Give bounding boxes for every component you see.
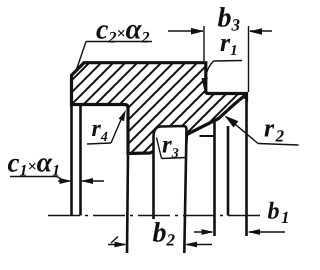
flange tooth white foreground — [154, 126, 187, 252]
section hatching of bearing ring — [0, 40, 320, 160]
roller top edge — [200, 135, 215, 137]
dimension c1 x alpha1 — [10, 177, 104, 182]
leader c2 x alpha2 — [77, 42, 153, 70]
label bubble r3 — [157, 134, 188, 159]
dimension b3 — [168, 26, 272, 92]
roller face line — [213, 120, 216, 237]
leader r2 — [226, 117, 299, 146]
flange tooth outline with fillet r3 — [154, 126, 187, 253]
left end face line — [70, 104, 73, 216]
flange inner face line — [227, 126, 230, 216]
leader r1 — [205, 61, 242, 85]
raceway diagonal — [187, 119, 218, 135]
leader r4 — [87, 114, 124, 144]
dimension b2 — [108, 237, 212, 245]
axis centerline — [48, 215, 263, 217]
shoulder face line — [127, 154, 128, 254]
right end face line — [245, 94, 248, 237]
fillet r2 groove curve — [219, 96, 245, 118]
bearing ring section outline (top face, chamfer c2, bore, shoulder fillet r4, raceway, corner r1, flange) — [72, 63, 247, 154]
chamfer c1 edge line — [79, 105, 82, 216]
dimension b1 — [194, 231, 285, 233]
